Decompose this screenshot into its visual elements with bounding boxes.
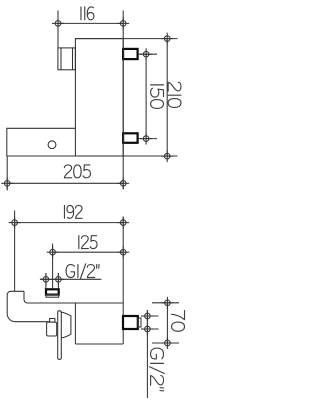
wall fitting neck <box>138 318 141 327</box>
dim 192 left extension <box>14 211 16 292</box>
dim 116 left extension <box>57 11 59 48</box>
label 210 rotated <box>168 82 181 107</box>
handle plate <box>58 311 62 360</box>
dim 210 line <box>166 39 168 157</box>
wire wall line lower <box>122 217 124 344</box>
node 205 R <box>117 177 129 189</box>
wire wall line upper <box>122 11 124 190</box>
node 125 L <box>47 246 59 258</box>
cone between handle and body <box>61 312 71 338</box>
body bottom edge + extension <box>7 155 178 157</box>
node G12 R <box>52 273 64 285</box>
node fitting T <box>141 310 153 322</box>
dim 205 line <box>7 182 123 184</box>
spout neck step <box>24 291 28 303</box>
shower outlet flange <box>46 295 59 298</box>
node 150 B <box>140 133 152 145</box>
node 125 R <box>117 246 129 258</box>
dim 70 line <box>166 303 168 343</box>
G1/2 ext right <box>57 273 59 290</box>
node 70 T <box>161 297 173 309</box>
dim 70 top tick <box>152 302 179 304</box>
label 150 rotated <box>151 85 164 109</box>
G1/2 ext left <box>45 273 47 290</box>
diverter box <box>47 322 57 336</box>
spout outer contour <box>7 291 50 321</box>
node 210 T <box>161 33 173 45</box>
fitting top tick <box>141 315 159 317</box>
node 70 B <box>161 337 173 349</box>
connector inner line 1 <box>60 48 62 70</box>
node 210 B <box>161 150 173 162</box>
label 205 <box>64 165 90 178</box>
dim 150 line <box>145 54 147 138</box>
label G1/2 spout <box>66 264 99 279</box>
dim G1/2 spout line <box>40 278 101 280</box>
aerator circle (plan) <box>48 141 56 149</box>
shower outlet fitting nut <box>46 289 59 294</box>
dim 150 top tick <box>138 53 157 55</box>
dim 116 line <box>58 22 123 24</box>
spout arm (plan) <box>7 128 76 156</box>
node 116 R <box>117 17 129 29</box>
body top edge <box>28 302 124 304</box>
top wall fitting (plan) <box>123 49 138 59</box>
body bottom edge <box>75 343 123 345</box>
dim 150 bottom tick <box>138 138 157 140</box>
G1/2 leader vertical <box>146 310 148 398</box>
dim 125 left extension <box>52 244 54 290</box>
bottom wall fitting (plan) <box>123 133 138 143</box>
connector inner line 2 <box>72 48 74 70</box>
dim 125 line <box>53 251 124 253</box>
label 125 <box>79 236 97 249</box>
body top edge + extension <box>75 38 177 40</box>
label 116 <box>81 7 94 20</box>
body left edge <box>74 303 76 344</box>
diverter step <box>50 319 55 323</box>
body rect (plan) <box>75 39 123 156</box>
dim 192 line <box>15 222 124 224</box>
fitting bottom tick <box>141 328 159 330</box>
node fitting B <box>141 323 153 335</box>
label 192 <box>64 205 82 218</box>
left connector (plan) <box>58 48 76 70</box>
wall fitting (front) <box>123 316 138 329</box>
dim 205 left extension <box>6 156 8 191</box>
node 192 R <box>117 217 129 229</box>
node 116 L <box>52 17 64 29</box>
dim 70 bottom tick <box>152 342 179 344</box>
node G12 L <box>40 273 52 285</box>
label 70 rotated <box>172 311 185 332</box>
node 150 T <box>140 48 152 60</box>
node 205 L <box>1 177 13 189</box>
node 192 L <box>9 217 21 229</box>
label G1/2 wall rotated <box>150 348 165 391</box>
